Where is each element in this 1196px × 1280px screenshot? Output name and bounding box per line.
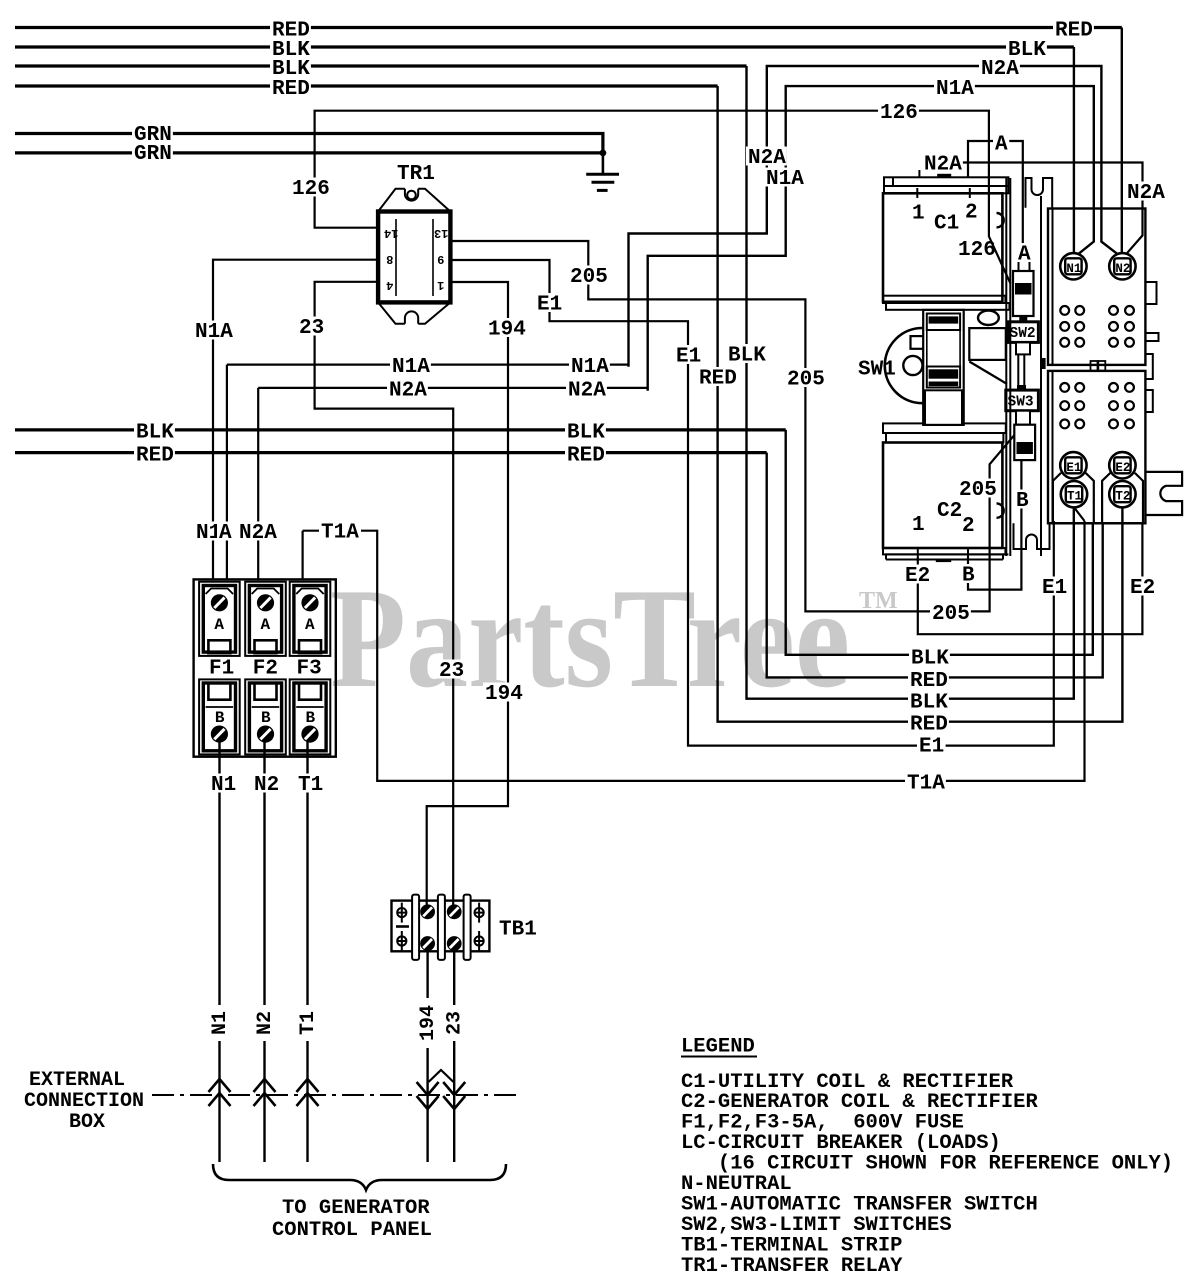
utility coil C1 side bump [997, 213, 1004, 227]
svg-text:N2: N2 [1115, 262, 1130, 276]
net label E1 (bottom run) [917, 735, 946, 754]
terminal funnel right pair [1102, 473, 1143, 522]
fuse F1 upper screw [211, 594, 228, 611]
wire 194 below TB1 [426, 950, 428, 1162]
wire label RED (to breaker 2) [908, 670, 949, 689]
wire RED top 1 drop to N2 terminal [1121, 28, 1123, 255]
fuse F3 upper screw [301, 594, 318, 611]
svg-text:BLK: BLK [911, 648, 949, 671]
wire label BLK (to breaker 3) [908, 691, 949, 710]
rotated label N1 [210, 1005, 229, 1041]
net label E2 (below C2 pin 1) [903, 565, 932, 584]
fuse feed label A [217, 522, 233, 541]
svg-text:4: 4 [386, 278, 393, 292]
svg-text:N2A: N2A [748, 147, 786, 170]
net label N1A (left feeder) [193, 321, 234, 340]
svg-text:194: 194 [488, 319, 526, 342]
svg-text:E2: E2 [1130, 577, 1155, 600]
net label 205 (at TR1) [568, 266, 609, 285]
wire C1 pin 1 stub [916, 188, 918, 198]
net label E2 (terminal wire) [1128, 577, 1157, 596]
net label E1 (vertical x688) [674, 345, 703, 364]
svg-text:205: 205 [787, 369, 825, 392]
plunger A body [1013, 271, 1034, 316]
svg-text:N1: N1 [209, 1011, 232, 1035]
svg-text:8: 8 [386, 252, 393, 266]
svg-text:N1A: N1A [766, 168, 804, 191]
SW1 top ellipse [978, 311, 999, 325]
fuse F2 upper screw [257, 594, 274, 611]
wire C1 pin 2 stub [969, 188, 971, 198]
svg-text:N1A: N1A [195, 321, 233, 344]
utility coil C1 top tab [937, 174, 951, 178]
net label RED (vertical x717) [697, 367, 738, 386]
wire C2 pin 1 tick [917, 548, 919, 557]
wire BLK mid-left horizontal [15, 428, 786, 431]
svg-text:N1: N1 [211, 774, 236, 797]
svg-text:N1A: N1A [571, 356, 609, 379]
rotated label T1 [298, 1005, 317, 1041]
wire label RED (mid-left wire) [134, 444, 175, 463]
net label B (below C2 pin 2) [960, 564, 976, 583]
TB1 jumper mark [396, 925, 409, 928]
wire BLK mid drop and run to breaker [786, 430, 1093, 655]
wire label RED (mid wire b) [565, 444, 606, 463]
terminal N2 [1109, 253, 1135, 279]
svg-text:A: A [1018, 244, 1031, 267]
automatic transfer switch SW1 arc [885, 328, 923, 403]
svg-text:E1: E1 [919, 736, 944, 759]
svg-text:RED: RED [567, 445, 605, 468]
svg-text:BLK: BLK [728, 345, 766, 368]
wire label GRN (ground wire 1) [132, 124, 173, 143]
wire net B from C2 pin 2 to plunger B [968, 459, 1021, 590]
connector arrows 23 [443, 1082, 465, 1109]
fuse F2 lower screw [257, 726, 274, 743]
svg-text:126: 126 [880, 102, 918, 125]
svg-text:N2A: N2A [981, 58, 1019, 81]
net label E1 (terminal wire) [1040, 577, 1069, 596]
SW1 linkage diagonal [969, 362, 1007, 385]
fuse F1 upper holder [199, 582, 240, 656]
SW3 top tab [1017, 385, 1026, 390]
wire net N2A at C1 to N2 terminal [962, 163, 1143, 253]
svg-text:SW3: SW3 [1008, 395, 1034, 411]
svg-text:126: 126 [958, 239, 996, 262]
net label 205 (bottom run) [930, 603, 971, 622]
C2 side bump [997, 503, 1004, 517]
SW1 slider column [923, 310, 964, 425]
net label N2A (vertical x746) [746, 147, 787, 166]
terminal E1 [1060, 452, 1086, 478]
svg-text:RED: RED [272, 78, 310, 101]
svg-text:194: 194 [485, 683, 523, 706]
breaker bottom edge line [1048, 522, 1145, 524]
ground symbol [586, 174, 619, 190]
rail top clip with U notch [1026, 178, 1053, 208]
TR1 pin numbers (rotated) [384, 226, 448, 292]
svg-text:E1: E1 [537, 294, 562, 317]
net label 126 (vertical run) [290, 178, 331, 197]
svg-text:N1: N1 [1066, 262, 1081, 276]
svg-text:PartsTree: PartsTree [330, 559, 850, 717]
terminal E2 [1109, 452, 1135, 478]
net label A (bracket above C1) [993, 133, 1009, 152]
net label N1A (run label a) [390, 356, 431, 375]
wire RED top 1 horizontal [15, 26, 1122, 29]
fuse output label T1 [296, 774, 325, 793]
svg-text:E2: E2 [905, 565, 930, 588]
svg-text:1: 1 [912, 514, 925, 537]
fuse F3 lower screw [301, 726, 318, 743]
net label N2A (at C1 coil) [922, 153, 963, 172]
wire net 23 TR1 pin L3 down to TB1 [315, 282, 454, 905]
svg-text:EXTERNAL: EXTERNAL [29, 1069, 125, 1092]
terminal funnel left pair [1053, 473, 1094, 522]
generator coil C2 body [883, 443, 1002, 549]
net label T1A (bottom run) [905, 772, 946, 791]
net label A at C1 plunger [1016, 243, 1032, 262]
net label BLK (vertical x747) [726, 344, 767, 363]
svg-text:CONTROL PANEL: CONTROL PANEL [272, 1219, 432, 1242]
svg-text:C1: C1 [934, 213, 959, 236]
TB1 side terminals [397, 903, 484, 951]
fuse feed label N2A [237, 522, 278, 541]
wire 23 below TB1 [453, 950, 455, 1162]
net label N1A (top wire 4 right) [934, 78, 975, 97]
divider squares [1091, 361, 1098, 371]
plunger A neck [1019, 254, 1030, 272]
mounting rail verticals [1006, 178, 1041, 556]
transfer relay TR1 body [378, 189, 450, 324]
svg-text:13: 13 [434, 226, 448, 240]
net label 205 (inside C2) [957, 479, 998, 498]
breaker pole dots upper [1060, 306, 1134, 347]
svg-text:E1: E1 [676, 346, 701, 369]
svg-text:N2A: N2A [568, 380, 606, 403]
fuse feed label T1A [319, 521, 360, 540]
plunger A black band [1015, 283, 1032, 295]
circuit breaker block LC lower half [1048, 371, 1145, 523]
wire fuse F1 output N1 down [218, 740, 220, 1162]
svg-text:CONNECTION: CONNECTION [24, 1090, 144, 1113]
svg-text:BLK: BLK [136, 422, 174, 445]
fuse feed label N1 [194, 522, 223, 541]
svg-text:F2: F2 [253, 658, 278, 681]
wire label RED (top wire 4 left) [270, 78, 311, 97]
svg-text:RED: RED [699, 368, 737, 391]
svg-text:E1: E1 [1042, 577, 1067, 600]
svg-text:126: 126 [292, 178, 330, 201]
svg-text:A: A [305, 616, 315, 634]
svg-text:23: 23 [443, 1011, 466, 1035]
wire N2A horizontal run to fuse F2 [258, 388, 648, 580]
wire fuse F3 output T1 down [306, 740, 308, 1162]
wire label RED (top wire 1 right) [1053, 19, 1094, 38]
TB1 divider bars [412, 895, 471, 960]
SW2 top tab [1019, 317, 1027, 321]
svg-text:T1: T1 [297, 1011, 320, 1035]
SW1 small circle [903, 356, 922, 375]
net label E1 (at TR1) [535, 293, 564, 312]
terminal N1 [1060, 253, 1086, 279]
divider tab mark [1042, 358, 1046, 369]
svg-text:T1A: T1A [907, 773, 945, 796]
wire net 194 TR1 pin R3 down to TB1 [427, 282, 508, 905]
utility coil C1 top plate [884, 177, 1008, 193]
svg-text:BOX: BOX [69, 1111, 105, 1134]
utility coil C1 body [883, 193, 1002, 301]
svg-text:205: 205 [570, 266, 608, 289]
svg-text:GRN: GRN [134, 143, 172, 166]
svg-text:B: B [962, 565, 975, 588]
wire label RED (to breaker 4) [908, 713, 949, 732]
fuse block outline [194, 579, 336, 756]
breaker right edge tabs [1145, 282, 1158, 412]
wire net N1A from fuse run up and over to N2 terminal [629, 66, 1118, 367]
wire GRN 1 [15, 134, 603, 153]
wire ground drop [602, 153, 605, 174]
wire label BLK (mid-left wire) [134, 421, 175, 440]
wire label GRN (ground wire 2) [132, 143, 173, 162]
net label 126 (horizontal run) [878, 102, 919, 121]
brace to generator control panel [213, 1164, 506, 1190]
svg-text:N2A: N2A [239, 522, 277, 545]
svg-text:TB1: TB1 [499, 919, 537, 942]
connector arrows N2 [254, 1079, 276, 1106]
wire label RED (top wire 1 left) [270, 19, 311, 38]
wire RED mid drop and run to breaker [767, 453, 1103, 678]
svg-text:2: 2 [962, 515, 975, 538]
junction dot GRN to ground [600, 150, 607, 157]
net label 23 (at TR1 left) [297, 317, 326, 336]
net label 205 (vertical x805) [785, 368, 826, 387]
plunger B neck [1016, 411, 1030, 425]
net label N1A (run label b) [569, 356, 610, 375]
breaker mounting ear [1145, 472, 1182, 515]
SW2 lower neck [1016, 342, 1030, 354]
connector arrows N1 [209, 1079, 231, 1106]
wire label BLK (top wire 3 left) [270, 58, 311, 77]
svg-text:T1A: T1A [321, 522, 359, 545]
net label N2A (top wire 3 right) [979, 58, 1020, 77]
wire net E2 from C2 pin 1 to E2 terminal [918, 524, 1143, 634]
rotated label 23 [445, 1005, 464, 1041]
TB1 screws [420, 904, 435, 919]
svg-text:B: B [1016, 490, 1029, 513]
svg-text:TR1-TRANSFER RELAY: TR1-TRANSFER RELAY [681, 1255, 903, 1278]
wire TR1 pin L2 to N1A feeder down to fuse F1 [213, 260, 379, 580]
svg-text:23: 23 [299, 317, 324, 340]
svg-text:A: A [219, 522, 232, 545]
wire C2 pin 2 tick [967, 548, 969, 557]
svg-text:SW2: SW2 [1010, 326, 1036, 342]
wire RED top 4 drop and bottom run to T2 terminal [718, 86, 1123, 722]
svg-text:14: 14 [384, 226, 398, 240]
svg-text:T1: T1 [298, 774, 323, 797]
wire GRN 2 [15, 151, 603, 154]
net label 23 (vertical x453) [437, 660, 466, 679]
terminal T1 [1061, 481, 1087, 507]
wire fuse F2 output N2 down [263, 740, 265, 1162]
terminal T2 [1109, 481, 1135, 507]
svg-text:BLK: BLK [910, 692, 948, 715]
stack link bars [1018, 354, 1024, 388]
svg-text:B: B [215, 709, 225, 727]
svg-text:RED: RED [910, 714, 948, 737]
svg-text:N1A: N1A [936, 78, 974, 101]
wire net A bracket over C1 pin 2 to plunger A [968, 141, 1023, 256]
wire net N2A from fuse run up and over to N1 terminal [648, 86, 1094, 391]
svg-text:E1: E1 [1066, 461, 1081, 475]
wire label BLK (top wire 2 right) [1006, 39, 1047, 58]
svg-text:2: 2 [965, 202, 978, 225]
wire BLK top 2 drop to N1 terminal [1073, 47, 1075, 255]
wire net 126 from GRN area to TR1 pin and to plunger A [315, 111, 1011, 284]
connector arrows 194 [417, 1082, 439, 1109]
svg-text:SW1: SW1 [858, 359, 896, 382]
wire RED top 4 horizontal [15, 84, 718, 87]
wire label BLK (to breaker 1) [909, 647, 950, 666]
fuse F1 lower holder [199, 679, 240, 754]
svg-text:N2A: N2A [924, 154, 962, 177]
generator coil C2 bottom plates [883, 548, 1008, 560]
svg-text:205: 205 [959, 479, 997, 502]
svg-text:B: B [261, 709, 271, 727]
wire RED mid-left horizontal [15, 451, 767, 454]
terminal strip TB1 body [392, 901, 490, 952]
svg-text:23: 23 [439, 660, 464, 683]
svg-text:194: 194 [417, 1005, 440, 1041]
limit switch SW2 box [1008, 322, 1038, 343]
svg-text:TO GENERATOR: TO GENERATOR [282, 1197, 430, 1220]
svg-text:C2: C2 [937, 500, 962, 523]
svg-text:RED: RED [910, 670, 948, 693]
svg-text:1: 1 [437, 278, 444, 292]
component label TB1 [497, 918, 538, 937]
svg-text:N2A: N2A [389, 380, 427, 403]
net label 194 (at TR1) [486, 318, 527, 337]
svg-text:N2: N2 [254, 774, 279, 797]
svg-text:N2: N2 [254, 1011, 277, 1035]
svg-text:N1A: N1A [392, 356, 430, 379]
svg-text:1: 1 [912, 203, 925, 226]
fuse F3 lower holder [290, 679, 331, 754]
generator coil C2 top plates [883, 423, 1006, 442]
fuse F3 upper holder [290, 582, 331, 656]
circuit breaker block LC upper half [1048, 209, 1145, 365]
net label N1A (vertical x767) [764, 168, 805, 187]
svg-text:A: A [995, 134, 1008, 157]
fuse F2 lower holder [245, 679, 286, 754]
rail bottom clip [1014, 523, 1050, 549]
wire label BLK (top wire 2 left) [270, 39, 311, 58]
fuse output label N1 [209, 774, 238, 793]
wire net 205 TR1 pin R1 to plunger B [450, 241, 1017, 611]
net label 194 (vertical x508) [483, 683, 524, 702]
wire BLK top 2 horizontal [15, 45, 1074, 48]
net label B (plunger B wire) [1014, 490, 1030, 509]
svg-text:B: B [306, 709, 316, 727]
wire label BLK (mid wire b) [565, 421, 606, 440]
utility coil C1 bottom plates [883, 296, 1009, 310]
svg-text:T2: T2 [1115, 490, 1130, 504]
svg-text:TR1: TR1 [397, 163, 435, 186]
net label N2A (run label a) [387, 379, 428, 398]
svg-text:BLK: BLK [567, 422, 605, 445]
svg-text:9: 9 [437, 252, 444, 266]
caret between 194 and 23 arrows [429, 1070, 454, 1082]
svg-text:A: A [261, 616, 271, 634]
wire N1A horizontal run to fuse F1 [227, 365, 629, 580]
svg-text:205: 205 [932, 603, 970, 626]
wire N2A stub at C1 [918, 170, 920, 178]
wire net E1 TR1 pin R2 to terminal T1 pair [450, 260, 1054, 746]
plunger B body [1014, 425, 1035, 460]
svg-text:RED: RED [1055, 20, 1093, 43]
fuse output label N2 [252, 774, 281, 793]
fuse F1 lower screw [211, 726, 228, 743]
svg-text:A: A [214, 616, 224, 634]
plunger B black band [1017, 442, 1033, 454]
svg-text:F1: F1 [209, 658, 234, 681]
svg-text:E2: E2 [1115, 461, 1130, 475]
external connection box boundary (dash-dot) [152, 1094, 520, 1096]
svg-text:T1: T1 [1067, 490, 1082, 504]
net label N2A (run label b) [566, 379, 607, 398]
svg-text:N2A: N2A [1127, 182, 1165, 205]
svg-text:F3: F3 [297, 658, 322, 681]
svg-text:LEGEND: LEGEND [681, 1036, 755, 1059]
net label N2A (far right) [1125, 182, 1166, 201]
wire net T1A bracket to fuse F3 and bottom run to T1 terminal [303, 508, 1085, 781]
breaker pole dots lower [1060, 383, 1134, 428]
wire BLK top 3 horizontal [15, 64, 747, 67]
wire BLK top 3 drop and bottom run to T1 terminal [747, 66, 1074, 699]
fuse F2 upper holder [245, 582, 286, 656]
connector arrows T1 [297, 1079, 319, 1106]
generator coil C2 bottom tab [936, 559, 951, 563]
SW1 notch square [911, 336, 925, 349]
rotated label 194 [418, 998, 437, 1048]
svg-text:TM: TM [859, 588, 898, 614]
limit switch SW3 box [1006, 390, 1039, 411]
rotated label N2 [255, 1005, 274, 1041]
svg-text:RED: RED [136, 445, 174, 468]
SW1 linkage box [969, 328, 1006, 360]
